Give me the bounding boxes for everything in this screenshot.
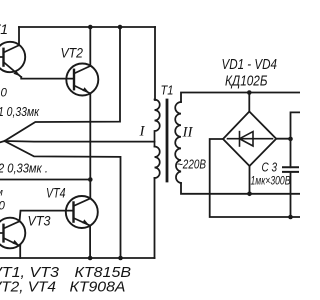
svg-text:VТ1: VТ1 (0, 21, 8, 37)
node dot bottom bus x=120 (118, 256, 123, 261)
svg-text:VТ4: VТ4 (46, 186, 66, 201)
wire VT3 emitter drop (19, 246, 21, 258)
wire bridge left DC- lead down and right to bus y=217 (210, 139, 300, 217)
svg-text:VТ3: VТ3 (28, 213, 51, 229)
svg-text:VТ2, VТ4: VТ2, VТ4 (0, 279, 56, 296)
svg-text:~220В: ~220В (177, 157, 206, 172)
node dot top bus x=120 (118, 25, 123, 30)
node dot bridge top on bus y=92.5 (247, 90, 252, 95)
wire C3 bottom lead (290, 172, 292, 217)
node dot top bus x=90 (88, 25, 93, 30)
wire VT3 collector to VT4 base (20, 211, 74, 222)
svg-text:1мк×300В: 1мк×300В (251, 174, 291, 188)
wire secondary bottom lead to bus y=194 (181, 183, 300, 194)
svg-text:VD1 - VD4: VD1 - VD4 (222, 56, 278, 73)
capacitor C3 plates (283, 167, 298, 172)
transformer T1 secondary winding II arcs (175, 102, 181, 183)
transistor VT1 (0, 42, 25, 77)
svg-text:КТ908А: КТ908А (70, 279, 126, 296)
diode bridge VD1-VD4 diamond (223, 112, 276, 167)
transistor VT3 (0, 218, 25, 249)
svg-text:II: II (182, 125, 194, 141)
svg-text:2 0,33мк .: 2 0,33мк . (0, 161, 48, 176)
wire center-tap line from node A to primary tap (0, 141, 155, 142)
transformer T1 primary winding I lower arcs (155, 147, 160, 179)
wire bridge right DC+ lead (276, 138, 290, 140)
node dot bridge bottom on bus y=194 (247, 192, 252, 197)
transformer T1 core (166, 100, 169, 181)
wire top supply bus (19, 26, 155, 28)
wire VT1 collector riser (18, 27, 20, 45)
wire bottom bus (0, 257, 155, 259)
transistor VT2 (66, 64, 98, 96)
node dot C3 bottom at bus y=217 (288, 215, 293, 220)
svg-text:м: м (0, 188, 3, 199)
wire output plus riser x=290.5 with corner to right edge (291, 112, 301, 167)
svg-text:0: 0 (1, 88, 8, 100)
wire VT2 collector riser (89, 27, 91, 66)
diode symbol inside bridge (228, 132, 273, 146)
wire secondary top lead to bus y=92.5 (181, 93, 300, 103)
transformer T1 primary winding I upper arcs (155, 100, 160, 147)
wire VT4 emitter drop (89, 226, 91, 258)
svg-text:1 0,33мк: 1 0,33мк (0, 104, 40, 119)
svg-text:С 3: С 3 (262, 160, 278, 175)
svg-text:КД102Б: КД102Б (225, 73, 268, 90)
wire bridge bottom AC lead (249, 166, 251, 194)
transistor VT4 (66, 196, 98, 228)
wire cross-coupling lower: from node A diagonal, right at y=156.7, down x=120.5 (5, 141, 121, 258)
svg-text:VТ2: VТ2 (61, 45, 84, 61)
node dot y=179.5 on VT2-VT4 vertical (88, 177, 93, 182)
wire VT1 emitter to VT2 base (21, 77, 74, 79)
wire primary top lead x=155 (154, 27, 156, 100)
wire cross-coupling upper: x=120 down, left at y=122, diagonal to node A (5, 27, 121, 141)
node dot bottom bus x=90 (88, 256, 93, 261)
wire primary bottom lead (154, 178, 156, 258)
svg-text:0: 0 (0, 201, 6, 213)
svg-text:I: I (139, 124, 146, 140)
node dot DC+ at x=290.5 y=139 (288, 137, 293, 142)
wire bridge top AC lead (248, 93, 250, 112)
svg-text:Т1: Т1 (161, 83, 174, 98)
wire stub left at y=179.5 (0, 179, 90, 181)
wire VT2 emitter / VT4 collector vertical (89, 93, 91, 198)
